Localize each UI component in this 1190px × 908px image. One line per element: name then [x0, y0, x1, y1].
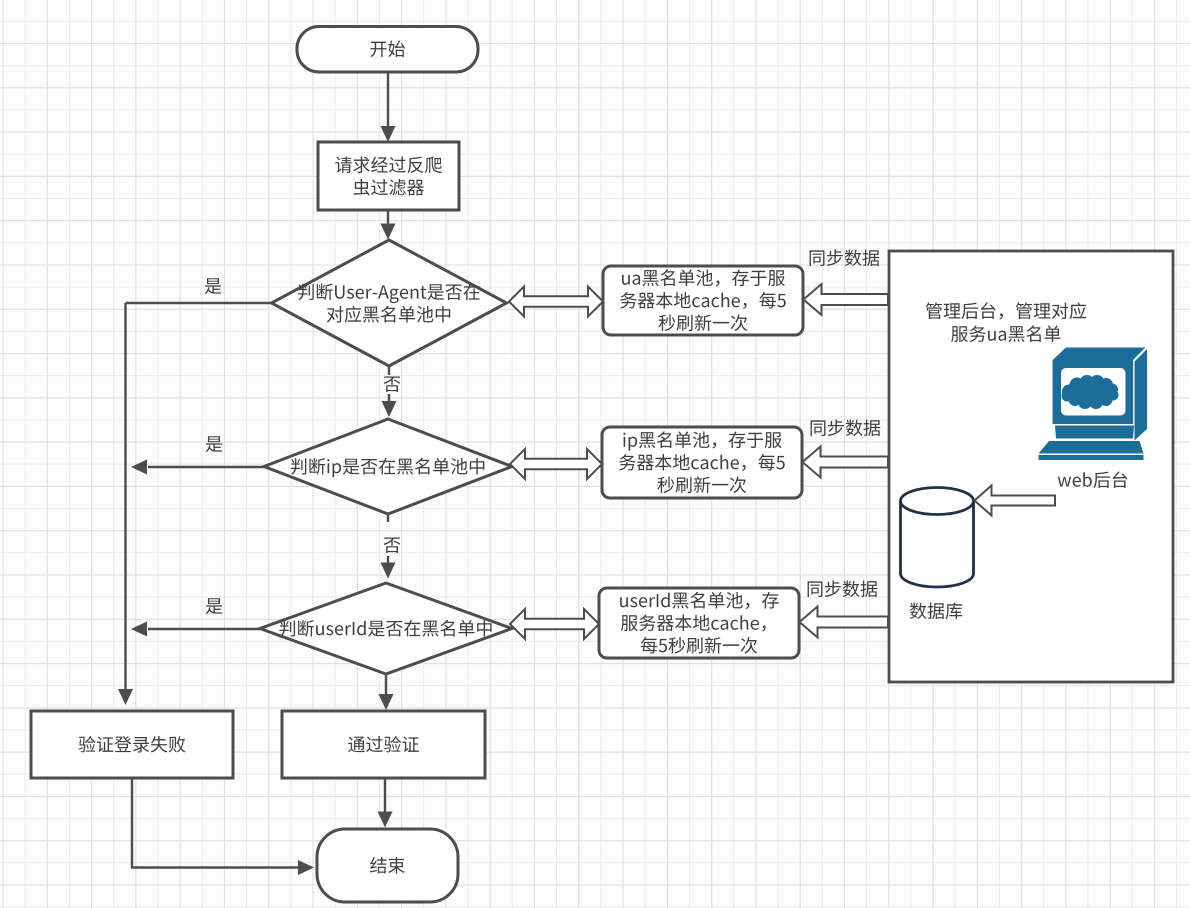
computer icon web后台 — [1039, 348, 1148, 461]
hollow arrow admin->userId box — [800, 607, 889, 638]
decision D2 判断ip — [264, 419, 512, 514]
wire start->filter — [381, 72, 396, 142]
label 是 (D3) — [206, 598, 223, 614]
end node 结束 — [317, 829, 458, 902]
cache box userId黑名单池 — [599, 588, 799, 658]
label 否 (D2) — [384, 538, 401, 554]
label 是 (D1) — [205, 278, 222, 294]
double arrow D2<->ip box — [510, 449, 602, 479]
label 同步数据 (ua) — [810, 249, 880, 266]
decision D1 判断User-Agent — [272, 240, 507, 366]
double arrow D1<->ua box — [509, 287, 603, 317]
wire fail->end — [131, 778, 314, 875]
process box 验证登录失败 — [31, 711, 233, 778]
wire pass->end — [378, 778, 393, 828]
wire D3->pass — [379, 674, 394, 710]
process box 通过验证 — [282, 711, 485, 778]
admin container box — [889, 251, 1173, 682]
admin title 管理后台 — [926, 302, 1086, 342]
hollow arrow admin->ua box — [804, 284, 889, 315]
label 同步数据 (userId) — [808, 580, 878, 597]
hollow arrow web->database — [975, 486, 1056, 516]
start node 开始 — [297, 27, 478, 73]
hollow arrow admin->ip box — [803, 447, 889, 478]
process box 请求经过反爬虫过滤器 — [318, 142, 459, 210]
wire D1 yes branch — [118, 303, 272, 705]
cache box ip黑名单池 — [602, 427, 802, 498]
wire D2->D3 — [381, 514, 396, 579]
label 数据库 — [910, 602, 962, 619]
cache box ua黑名单池 — [603, 266, 803, 335]
wire D3 yes branch — [131, 622, 260, 637]
wire filter->D1 — [381, 210, 396, 240]
database cylinder — [901, 488, 974, 588]
label web后台 — [1058, 471, 1128, 488]
label 是 (D2) — [206, 436, 223, 452]
decision D3 判断userId — [260, 583, 512, 674]
label 同步数据 (ip) — [811, 419, 881, 436]
wire D2 yes branch — [131, 460, 264, 475]
double arrow D3<->userId box — [510, 609, 599, 639]
wire D1->D2 — [382, 366, 397, 417]
label 否 (D1) — [384, 377, 401, 393]
